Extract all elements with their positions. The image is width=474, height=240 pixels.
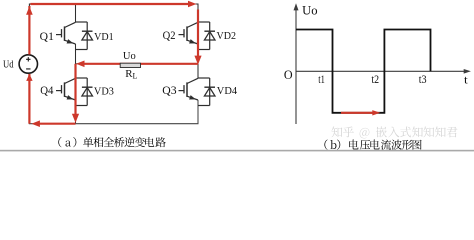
current direction arrow on negative half-cycle (red): [341, 110, 380, 115]
svg-text:t: t: [464, 72, 468, 86]
waveform X axis (t axis): [296, 69, 471, 74]
current path: source up to top rail (red, arrow up): [26, 6, 33, 55]
current path: mid rail right-to-left through RL (red, arrow left): [76, 61, 198, 68]
transistor Q2 (IGBT): [179, 22, 199, 44]
svg-text:Q1: Q1: [40, 30, 54, 43]
svg-text:Q3: Q3: [162, 84, 177, 97]
wire: left trunk Q1 emitter to mid rail: [75, 44, 77, 64]
resistor RL: [120, 63, 140, 67]
watermark 知乎 @嵌入式知知知君: [332, 126, 458, 138]
svg-text:VD2: VD2: [217, 31, 237, 42]
wire: bottom rail: [29, 100, 198, 124]
square wave Uo: [296, 30, 431, 113]
svg-text:t3: t3: [419, 72, 427, 86]
diode VD3 (antiparallel): [76, 78, 93, 106]
current path: left rail bottom rail up to source (red): [26, 74, 32, 124]
waveform Y axis (Uo axis): [294, 3, 299, 124]
diode VD1 (antiparallel): [76, 22, 93, 50]
wire: top rail: [29, 4, 198, 22]
svg-text:Ud: Ud: [3, 59, 14, 71]
svg-text:O: O: [284, 68, 293, 82]
caption (b) 电压电流波形图: [324, 139, 421, 149]
wire: left trunk mid rail to Q4 collector: [75, 64, 77, 78]
caption (a) 单相全桥逆变电路: [58, 137, 166, 147]
bottom grey rule: [0, 150, 474, 152]
svg-text:VD1: VD1: [94, 32, 114, 43]
diode VD2 (antiparallel): [198, 22, 215, 50]
current path: down Q2/VD2 leg (red, arrow down): [194, 10, 201, 65]
wire: right trunk Q2 emitter to mid rail: [197, 44, 199, 64]
voltage source Ud: [19, 55, 37, 73]
wire: Q1 collector lead from top rail: [75, 4, 77, 22]
transistor Q3 (IGBT): [179, 78, 199, 100]
transistor Q4 (IGBT): [56, 78, 76, 100]
svg-text:Uo: Uo: [123, 51, 136, 62]
current path: top rail left-to-right (red, arrow right): [30, 1, 196, 8]
svg-text:VD4: VD4: [217, 86, 238, 97]
wire: right trunk mid rail to Q3 collector: [197, 64, 199, 78]
svg-text:t2: t2: [371, 72, 379, 86]
svg-text:RL: RL: [125, 68, 137, 81]
wire: mid rail load branch: [76, 63, 199, 65]
svg-text:Uo: Uo: [302, 4, 317, 18]
transistor Q1 (IGBT): [56, 22, 76, 44]
wire: left trunk Q4 emitter to bottom rail: [75, 100, 77, 124]
svg-text:Q2: Q2: [163, 29, 176, 42]
diode VD4 (antiparallel): [198, 78, 215, 106]
current path: down Q4/VD3 leg (red, arrow down): [72, 64, 79, 123]
svg-text:Q4: Q4: [40, 84, 53, 97]
svg-text:t1: t1: [318, 72, 325, 86]
svg-text:VD3: VD3: [94, 86, 114, 97]
current path: bottom rail right-to-left (red, arrow left): [31, 120, 75, 127]
